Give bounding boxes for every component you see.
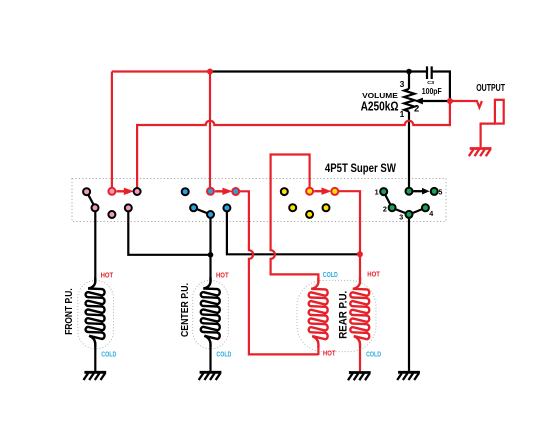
svg-text:FRONT P.U.: FRONT P.U.	[64, 288, 75, 335]
svg-text:COLD: COLD	[366, 349, 381, 358]
svg-text:HOT: HOT	[101, 271, 114, 280]
svg-text:COLD: COLD	[101, 349, 116, 358]
svg-text:REAR P.U.: REAR P.U.	[337, 291, 349, 339]
svg-text:4: 4	[429, 209, 433, 218]
svg-text:HOT: HOT	[216, 271, 229, 280]
svg-text:CENTER P.U.: CENTER P.U.	[180, 283, 191, 337]
svg-text:1: 1	[375, 188, 379, 197]
svg-text:HOT: HOT	[367, 270, 380, 279]
svg-text:4P5T Super SW: 4P5T Super SW	[325, 161, 396, 175]
svg-text:A250kΩ: A250kΩ	[361, 98, 399, 113]
svg-text:1: 1	[400, 109, 405, 119]
svg-text:2: 2	[414, 104, 419, 115]
svg-text:HOT: HOT	[323, 349, 336, 358]
svg-text:COLD: COLD	[323, 270, 338, 279]
svg-text:3: 3	[399, 212, 403, 221]
svg-text:3: 3	[400, 79, 405, 89]
svg-text:100pF: 100pF	[422, 87, 442, 96]
svg-text:5: 5	[438, 188, 442, 197]
svg-text:OUTPUT: OUTPUT	[476, 83, 505, 94]
svg-text:C3: C3	[427, 80, 434, 86]
svg-text:2: 2	[383, 204, 387, 213]
svg-text:COLD: COLD	[216, 349, 231, 358]
